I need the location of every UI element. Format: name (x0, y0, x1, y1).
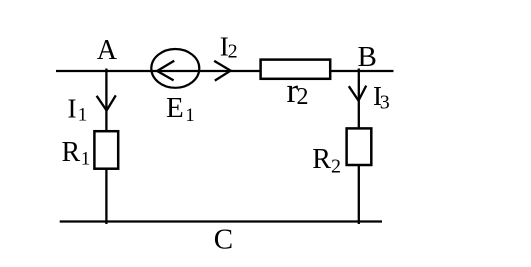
wire right branch lower (R2 down to C) (358, 165, 360, 224)
wire left branch upper (A down to R1) (105, 69, 107, 133)
svg-text:1: 1 (185, 105, 195, 126)
svg-text:I: I (68, 94, 77, 124)
svg-text:A: A (97, 35, 118, 66)
current arrow I1 (97, 95, 116, 110)
wire left branch lower (R1 down to C) (105, 169, 107, 224)
svg-text:1: 1 (78, 105, 88, 126)
resistor R2 (347, 128, 372, 165)
svg-text:1: 1 (81, 149, 91, 170)
svg-text:2: 2 (297, 84, 309, 110)
svg-text:C: C (214, 223, 233, 255)
svg-text:B: B (358, 41, 377, 73)
wire right branch upper (B down to R2) (358, 69, 360, 130)
resistor r2 (261, 60, 331, 79)
svg-text:3: 3 (380, 92, 390, 114)
svg-text:R: R (62, 137, 81, 168)
current arrow I2 (214, 61, 230, 81)
wire top horizontal A-B (56, 70, 394, 72)
svg-text:E: E (166, 92, 184, 124)
wire bottom horizontal C (60, 220, 382, 222)
svg-text:R: R (312, 144, 331, 175)
current arrow I3 (349, 86, 366, 101)
svg-text:2: 2 (331, 156, 341, 178)
svg-text:2: 2 (228, 41, 238, 63)
E1 arrow (points left, inside circle) (157, 61, 174, 81)
resistor R1 (94, 131, 118, 169)
EMF source E1 circle (151, 49, 199, 88)
